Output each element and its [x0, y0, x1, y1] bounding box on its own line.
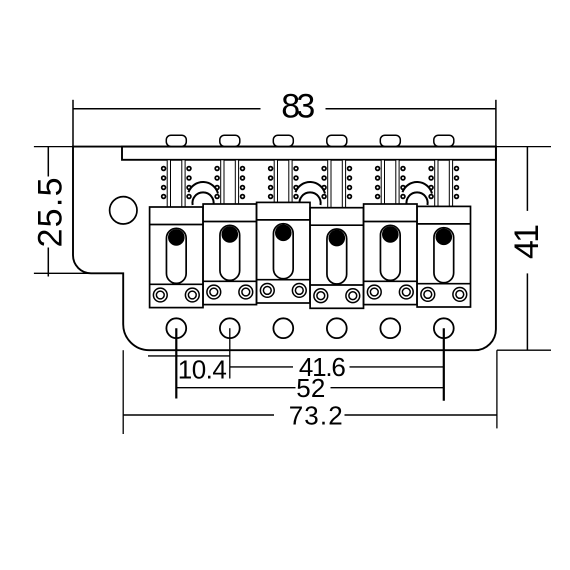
- saddle 4 top block line: [310, 224, 363, 226]
- saddle 6 string ball (black dot): [436, 229, 453, 246]
- svg-text:25.5: 25.5: [32, 178, 70, 248]
- saddle 5 body: [364, 204, 417, 305]
- saddle 6 height screw 2: [453, 288, 467, 302]
- intonation screw shaft lines string 2: [221, 160, 224, 210]
- spring coil dots string 5: [376, 167, 380, 171]
- mounting screw head 2: [220, 135, 240, 146]
- dim 41 line: [526, 147, 528, 211]
- tremolo arm hole: [110, 197, 137, 224]
- recess outer arc 2: [295, 182, 325, 193]
- saddle 4 height screw 2: [346, 289, 360, 303]
- intonation screw shaft lines string 4: [328, 160, 331, 210]
- recess outer arc 1: [188, 182, 218, 193]
- dim 25.5 extension line top: [34, 146, 73, 148]
- dim 52 line: [176, 387, 295, 389]
- saddle 1 slot: [166, 228, 186, 283]
- ext line plate right: [496, 350, 498, 428]
- saddle 4 string ball (black dot): [329, 230, 346, 247]
- svg-text:52: 52: [296, 373, 325, 403]
- saddle 4 body: [310, 208, 363, 309]
- dim 25.5 line: [47, 147, 49, 177]
- saddle 1 body: [150, 207, 203, 308]
- saddle 6 lower section line: [417, 283, 470, 285]
- saddle 6 slot: [434, 228, 454, 283]
- dim 41 extension line top: [496, 146, 551, 148]
- saddle 6 top block line: [417, 223, 470, 225]
- dim 41 extension line bottom: [497, 349, 551, 351]
- saddle 2 height screw 2: [239, 285, 253, 299]
- saddle 4 height screw 1: [314, 289, 328, 303]
- dim 73.2 line: [123, 414, 274, 416]
- saddle 5 lower section line: [364, 280, 417, 282]
- saddle 5 height screw 1: [367, 285, 381, 299]
- intonation screw shaft lines string 3: [274, 160, 277, 210]
- ext line from hole 1: [175, 328, 177, 398]
- ext line from hole 2: [229, 328, 231, 378]
- saddle 2 top block line: [203, 221, 256, 223]
- saddle 3 top block line: [257, 219, 310, 221]
- saddle 5 top block line: [364, 221, 417, 223]
- saddle 1 lower section line: [150, 283, 203, 285]
- spring coil dots string 4: [322, 167, 326, 171]
- saddle 5 string ball (black dot): [382, 226, 399, 243]
- saddle 3 slot: [273, 224, 293, 279]
- mounting screw head 1: [166, 135, 186, 146]
- dim 41.6 line: [230, 366, 293, 368]
- intonation screw shaft lines string 1: [167, 160, 170, 210]
- base plate screw hole 5: [380, 318, 400, 338]
- spring coil dots string 3: [269, 167, 273, 171]
- base plate screw hole 2: [220, 318, 240, 338]
- base plate screw hole 3: [273, 318, 293, 338]
- saddle 2 string ball (black dot): [222, 226, 239, 243]
- dim 10.4 line: [148, 355, 230, 357]
- saddle 3 string ball (black dot): [275, 225, 292, 242]
- ext line plate lower-left: [122, 350, 124, 434]
- mounting screw head 3: [273, 135, 293, 146]
- recess outer arc 3: [402, 182, 432, 193]
- dim 83 extension line right: [495, 100, 497, 147]
- ext line from hole 6: [443, 328, 445, 401]
- saddle 6 body: [417, 206, 470, 307]
- mounting screw head 6: [434, 135, 454, 146]
- dim 25.5 extension line bottom: [34, 272, 92, 274]
- saddle 2 slot: [220, 225, 240, 280]
- saddle 1 top block line: [150, 224, 203, 226]
- saddle 4 lower section line: [310, 284, 363, 286]
- svg-text:73.2: 73.2: [289, 401, 343, 431]
- saddle 3 lower section line: [257, 279, 310, 281]
- mounting screw head 5: [380, 135, 400, 146]
- base plate screw hole 4: [327, 318, 347, 338]
- saddle 3 height screw 1: [260, 284, 274, 298]
- saddle 3 body: [257, 202, 310, 303]
- recess inner arc 3: [406, 192, 427, 205]
- svg-text:10.4: 10.4: [178, 354, 227, 384]
- saddle 1 height screw 2: [185, 288, 199, 302]
- mounting screw head 4: [327, 135, 347, 146]
- saddle 2 body: [203, 204, 256, 305]
- saddle 2 lower section line: [203, 280, 256, 282]
- intonation screw shaft lines string 5: [381, 160, 384, 210]
- intonation screw shaft lines string 6: [435, 160, 438, 210]
- base plate screw hole 1: [166, 318, 186, 338]
- dim 83 extension line left: [72, 100, 74, 147]
- front lip strip: [122, 147, 496, 160]
- saddle 1 string ball (black dot): [168, 229, 185, 246]
- saddle 4 slot: [327, 229, 347, 284]
- svg-text:41: 41: [508, 224, 546, 259]
- spring coil dots string 6: [429, 167, 433, 171]
- saddle 5 height screw 2: [399, 285, 413, 299]
- spring coil dots string 2: [215, 167, 219, 171]
- recess inner arc 1: [192, 192, 213, 205]
- saddle 2 height screw 1: [207, 285, 221, 299]
- bridge base plate outline: [73, 147, 496, 351]
- saddle 6 height screw 1: [421, 288, 435, 302]
- saddle 1 height screw 1: [153, 288, 167, 302]
- recess inner arc 2: [299, 192, 320, 205]
- spring coil dots string 1: [162, 167, 166, 171]
- svg-text:83: 83: [281, 88, 315, 126]
- base plate screw hole 6: [434, 318, 454, 338]
- saddle 3 height screw 2: [292, 284, 306, 298]
- saddle 5 slot: [380, 225, 400, 280]
- dim 83 line: [73, 108, 261, 110]
